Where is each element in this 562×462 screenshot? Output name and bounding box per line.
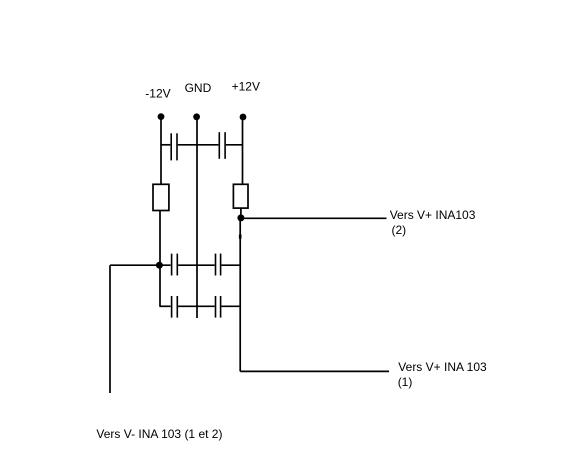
wire top cap row middle segment [178, 144, 219, 146]
svg-text:(2): (2) [392, 223, 407, 237]
wire top cap row left segment [161, 144, 170, 146]
wire row2 middle segment [178, 305, 215, 307]
capacitor C3 (row1 left) [172, 254, 178, 276]
capacitor C4 (row1 right) [216, 254, 221, 276]
wire to Vers V+ INA 103 (1) [240, 370, 389, 372]
svg-text:Vers V+ INA 103: Vers V+ INA 103 [398, 360, 487, 374]
resistor R1 [153, 184, 169, 210]
wire R2 to junction [240, 208, 242, 218]
terminal dot GND [193, 113, 200, 120]
wire GND vertical [196, 117, 198, 318]
svg-text:+12V: +12V [232, 79, 260, 93]
capacitor C6 (row2 right) [216, 296, 221, 318]
resistor R2 [233, 184, 248, 208]
wire left branch horizontal corner [109, 265, 111, 393]
capacitor C5 (row2 left) [172, 296, 178, 318]
wire -12V vertical top [160, 117, 162, 185]
wire row1 right segment [221, 264, 240, 266]
wire +12V vertical lower [239, 218, 241, 371]
capacitor C1 (-12V to GND) [171, 133, 177, 160]
terminal dot -12V [158, 113, 165, 120]
wire row1 far-left segment [110, 264, 171, 266]
svg-text:-12V: -12V [145, 87, 170, 101]
wire to Vers V+ INA103 (2) [241, 217, 387, 219]
capacitor C2 (GND to +12V) [219, 132, 225, 159]
wire top cap row right segment [226, 144, 243, 146]
svg-text:(1): (1) [398, 375, 413, 389]
terminal dot +12V [240, 114, 247, 121]
wire -12V below R1 [159, 211, 161, 307]
junction dot V+ (2) [237, 214, 244, 221]
wire row1 middle segment [178, 264, 215, 266]
svg-text:Vers V+ INA103: Vers V+ INA103 [390, 208, 476, 222]
wire +12V vertical top [242, 117, 244, 185]
wire row2 right segment [221, 305, 240, 307]
junction dot row1 [156, 262, 163, 269]
svg-text:Vers V- INA 103 (1 et 2): Vers V- INA 103 (1 et 2) [96, 427, 222, 441]
jog mark on +12V wire [239, 235, 242, 239]
svg-text:GND: GND [185, 81, 212, 95]
wire row2 left segment [159, 305, 170, 307]
